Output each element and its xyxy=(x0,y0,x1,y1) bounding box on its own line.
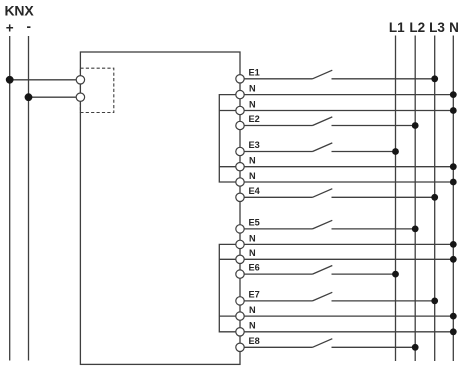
switch S1 blade xyxy=(313,70,333,79)
svg-text:-: - xyxy=(26,19,31,34)
switch S5 blade xyxy=(313,220,333,229)
junction E2 on L2 bus xyxy=(412,122,419,129)
terminal N (row 10) xyxy=(236,240,244,248)
wire E4 to switch xyxy=(244,196,312,198)
wire L1 bus xyxy=(395,36,397,362)
switch S2 blade xyxy=(313,117,333,126)
terminal N (row 2) xyxy=(236,90,244,98)
svg-text:N: N xyxy=(249,84,256,94)
junction on - bus xyxy=(25,93,33,101)
wire N row 7 to N bus xyxy=(244,181,453,183)
terminal N (row 7) xyxy=(236,178,244,186)
junction row 6 on N bus xyxy=(450,163,457,170)
junction E7 on L3 bus xyxy=(431,298,438,305)
svg-text:L3: L3 xyxy=(429,20,445,35)
svg-text:N: N xyxy=(249,248,256,258)
svg-text:KNX: KNX xyxy=(5,2,35,18)
terminal N (row 3) xyxy=(236,106,244,114)
KNX bus coupler dashed box xyxy=(80,68,113,112)
wire switch S3 to L1 bus xyxy=(332,151,396,153)
junction E8 on L2 bus xyxy=(412,344,419,351)
wire E8 to switch xyxy=(244,346,312,348)
wire L3 bus xyxy=(434,36,436,362)
terminal E1 xyxy=(236,75,244,83)
N jumper stub row 6 xyxy=(219,258,236,260)
junction row 10 on N bus xyxy=(450,241,457,248)
switch S6 blade xyxy=(313,266,333,275)
N jumper stub row 2 xyxy=(219,110,236,112)
junction row 15 on N bus xyxy=(450,328,457,335)
svg-text:N: N xyxy=(249,305,256,315)
svg-text:E2: E2 xyxy=(249,114,260,124)
wire N row 11 to N bus xyxy=(244,258,453,260)
wire E5 to switch xyxy=(244,228,312,230)
svg-text:N: N xyxy=(249,233,256,243)
wire E6 to switch xyxy=(244,273,312,275)
terminal N (row 14) xyxy=(236,312,244,320)
device U1 binary input module outline xyxy=(80,52,240,364)
wire switch S8 to L2 bus xyxy=(332,346,416,348)
svg-text:L1: L1 xyxy=(389,20,405,35)
wire switch S7 to L3 bus xyxy=(332,300,435,302)
terminal N (row 11) xyxy=(236,255,244,263)
junction E1 on L3 bus xyxy=(431,75,438,82)
wire N row 6 to N bus xyxy=(244,166,453,168)
wire N row 14 to N bus xyxy=(244,315,453,317)
junction row 11 on N bus xyxy=(450,256,457,263)
wire E1 to switch xyxy=(244,78,312,80)
wire KNX - to device xyxy=(29,96,78,98)
wire N row 2 to N bus xyxy=(244,94,453,96)
junction row 2 on N bus xyxy=(450,91,457,98)
terminal KNX - xyxy=(76,93,84,101)
terminal E6 xyxy=(236,270,244,278)
svg-text:E8: E8 xyxy=(249,336,260,346)
wire switch S2 to L2 bus xyxy=(332,125,416,127)
terminal E8 xyxy=(236,343,244,351)
terminal E5 xyxy=(236,225,244,233)
switch S3 blade xyxy=(313,143,333,152)
terminal N (row 6) xyxy=(236,163,244,171)
wire E3 to switch xyxy=(244,151,312,153)
terminal E2 xyxy=(236,121,244,129)
svg-text:E3: E3 xyxy=(249,140,260,150)
svg-text:N: N xyxy=(249,171,256,181)
wire switch S4 to L3 bus xyxy=(332,196,435,198)
wire N row 3 to N bus xyxy=(244,110,453,112)
terminal E4 xyxy=(236,193,244,201)
wire switch S6 to L1 bus xyxy=(332,273,396,275)
terminal KNX + xyxy=(76,76,84,84)
wire KNX + to device xyxy=(10,79,77,81)
svg-text:N: N xyxy=(249,156,256,166)
svg-text:N: N xyxy=(449,20,459,35)
terminal E7 xyxy=(236,297,244,305)
N jumper bus group 1 xyxy=(219,95,236,182)
wire E7 to switch xyxy=(244,300,312,302)
svg-text:+: + xyxy=(6,21,14,36)
switch S8 blade xyxy=(313,339,333,348)
svg-text:E1: E1 xyxy=(249,67,260,77)
terminal N (row 15) xyxy=(236,328,244,336)
switch S4 blade xyxy=(313,189,333,198)
wire N row 15 to N bus xyxy=(244,331,453,333)
junction row 14 on N bus xyxy=(450,313,457,320)
wire KNX - bus xyxy=(28,36,30,361)
junction on + bus xyxy=(6,76,14,84)
N jumper stub row 3 xyxy=(219,166,236,168)
junction E4 on L3 bus xyxy=(431,194,438,201)
wire N row 10 to N bus xyxy=(244,243,453,245)
svg-text:L2: L2 xyxy=(409,20,425,35)
wire L2 bus xyxy=(414,36,416,362)
wire KNX + bus xyxy=(9,36,11,361)
junction E3 on L1 bus xyxy=(392,148,399,155)
junction E6 on L1 bus xyxy=(392,271,399,278)
svg-text:E6: E6 xyxy=(249,263,260,273)
wire N bus xyxy=(452,36,454,362)
wire switch S5 to L2 bus xyxy=(332,228,416,230)
N jumper bus group 2 xyxy=(219,244,236,331)
svg-text:E5: E5 xyxy=(249,218,260,228)
junction row 3 on N bus xyxy=(450,107,457,114)
switch S7 blade xyxy=(313,292,333,301)
svg-text:E7: E7 xyxy=(249,290,260,300)
wire switch S1 to L3 bus xyxy=(332,78,435,80)
junction E5 on L2 bus xyxy=(412,226,419,233)
svg-text:E4: E4 xyxy=(249,186,261,196)
svg-text:N: N xyxy=(249,321,256,331)
junction row 7 on N bus xyxy=(450,179,457,186)
terminal E3 xyxy=(236,147,244,155)
wire E2 to switch xyxy=(244,125,312,127)
svg-text:N: N xyxy=(249,99,256,109)
N jumper stub row 7 xyxy=(219,315,236,317)
